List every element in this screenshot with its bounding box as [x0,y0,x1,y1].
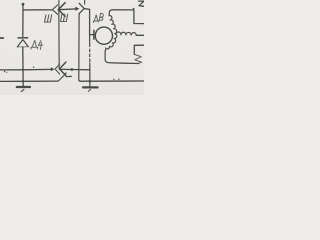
connector Sh2 fork (socket) [79,3,84,13]
wire: lower horizontal y=63.4 [112,62,138,65]
connector Sh1 small chevron [52,5,57,14]
switch fixed contact dash [66,75,71,77]
connector Sh3 big chevron [59,62,66,76]
resistor Z2 zigzag at right edge (cut) [134,54,141,63]
switch blade arrow from bus C up to bus B [58,74,65,81]
resistor Z1 zigzag at top-right edge (cut) [139,1,145,6]
wire: winding bottom tail down to lower horizontal [105,49,112,63]
node: junction of bus C and ground drop [89,80,92,83]
label D4 [31,40,43,49]
mechanical link: dashed section [89,49,91,51]
wire: brush stub [90,34,94,36]
connector Sh1 big chevron (socket) [58,3,65,17]
node: left rail top terminal dot [22,3,25,6]
node: small dot at end of bus B [89,69,91,71]
ground GND1 tick [21,89,24,91]
wire: ground drop through bus C to GND2 [89,64,91,87]
wire: bottom bus C (y=81.2) left section [0,80,58,82]
wire: bus C right section to right edge [80,80,144,82]
connector Sh2 arrow (plug pin) [75,7,79,11]
node: junction dot on bus B [71,68,74,71]
label DV [93,13,103,22]
ground GND2 bar [83,86,98,88]
wire: connector Sh2 stub to top edge [84,0,86,4]
wire: top wire into winding (bend) [109,10,112,16]
motor field winding: scallop chain around right of circle [106,16,117,49]
connector Sh3 small chevron [55,64,60,74]
connector Sh3 arrow (on bus B) [51,67,55,71]
wire: right edge y=45 into corner down [134,45,144,54]
wire: top-right feed, corner down and out right edge [112,10,144,24]
node: junction of bus B with left rail [22,69,24,71]
label Sh (left) [45,15,52,22]
ground GND2 tick [88,89,90,91]
wire: coil to right edge [136,34,144,36]
wire: bottom bus B (y=69.7) from left edge to arrow [0,68,51,71]
motor DV brush bar [93,30,95,39]
connector Sh1 plug: vertical pin line from top edge [58,0,60,10]
switch blade arrowhead [64,72,67,75]
node: speck left of connector [33,67,34,68]
mechanical link: solid part below brush [89,35,91,47]
node: specks under bus B [4,71,5,72]
diode D4 triangle (anode, pointing up) [17,40,28,47]
node: speck above top-right corner [133,8,135,10]
wire: vertical rail x=59 from connector down to lower connector [58,10,60,69]
wire: bus B from connector to mech link [59,68,89,71]
scan shading [0,0,144,95]
wire: left vertical rail x=23 [22,4,24,36]
diode D4 cathode bar [18,37,28,39]
wire: vertical from Sh2 fork arm down to bus C corner [79,14,81,82]
node: specks on bus C [113,79,114,80]
motor DV armature circle [95,27,112,44]
wire: top horizontal bus from left rail to connector [23,9,52,11]
label Sh (right) [61,14,68,21]
wire: stub at left edge [0,37,3,39]
paper background [0,0,144,95]
motor shunt winding: horizontal bump coil [116,32,136,35]
wire: left rail between diode and ground [22,47,24,86]
wire: top bus between connectors [58,8,75,11]
node: junction of bus C with left rail [22,80,24,82]
wire: top bus from Sh2 to corner, down to motor brush [84,9,89,35]
ground GND1 bar [17,86,30,88]
